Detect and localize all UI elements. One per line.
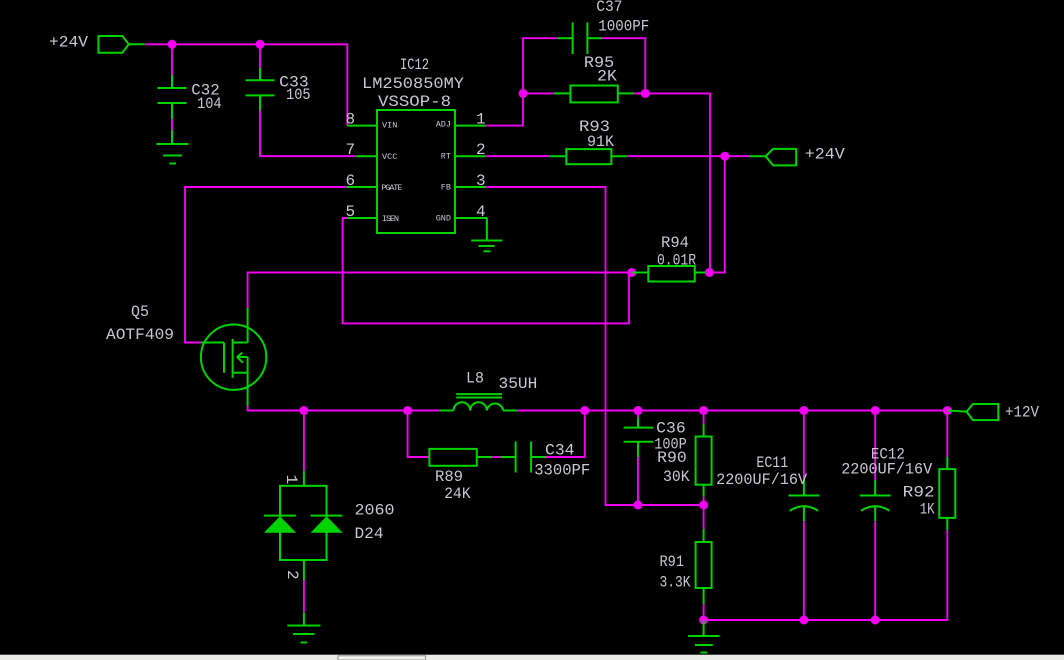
svg-text:+12V: +12V [1005,404,1039,422]
resistor R92 [903,457,956,530]
svg-text:2: 2 [283,570,301,580]
pin 8 VIN [346,111,398,131]
capacitor C34 [501,442,591,480]
junction FB node R90/R91 [699,501,708,510]
junction R94 left [627,268,636,277]
svg-text:C37: C37 [596,0,622,16]
junction top rail C33 [256,40,265,49]
junction rail R90 [699,406,708,415]
svg-text:1: 1 [476,111,486,129]
svg-text:IC12: IC12 [400,56,429,74]
wire ISEN pin5 to R94 left [343,218,629,323]
junction rail EC12 [871,406,880,415]
junction R94 right [705,268,714,277]
svg-text:2200UF/16V: 2200UF/16V [841,460,932,478]
svg-text:24K: 24K [444,485,471,503]
resistor R89 [429,449,492,503]
wire R91 top stub [703,505,705,529]
pin 7 VCC [346,141,398,162]
svg-text:91K: 91K [587,133,614,151]
wire EC12 bottom [874,521,876,620]
junction top rail C32 [168,40,177,49]
svg-text:6: 6 [346,172,356,190]
inductor L8 [440,370,538,411]
wire C36 bottom to FB node [637,457,639,505]
wire main +12V rail [248,406,948,411]
resistor R90 [657,424,712,497]
ground bottom right [688,620,719,653]
svg-text:7: 7 [346,141,356,159]
IC IC12 LM250850MY VSSOP-8 [362,56,464,233]
junction R95 right [641,89,650,98]
svg-text:Q5: Q5 [131,303,149,321]
svg-text:3: 3 [476,172,486,190]
junction ground rail EC12 [871,616,880,625]
wire R92 bottom to ground rail [704,530,948,620]
wire D24 to ground [303,580,305,613]
resistor R94 [632,234,710,282]
svg-text:D24: D24 [355,525,384,543]
wire +24V top rail [145,44,348,125]
svg-text:VSSOP-8: VSSOP-8 [378,93,451,111]
wire EC11 bottom [803,521,805,620]
resistor R95 [554,54,634,102]
junction rail D24 [299,406,308,415]
wire EC11 branch [803,411,805,482]
svg-text:2200UF/16V: 2200UF/16V [716,471,807,489]
junction rail R92 [943,406,952,415]
svg-text:2060: 2060 [355,502,395,520]
diode D24 [264,471,395,580]
wire R95 left stub [523,92,554,94]
svg-text:R91: R91 [660,553,685,571]
ground under D24 [287,613,320,643]
svg-text:3.3K: 3.3K [660,573,691,591]
svg-text:R92: R92 [903,484,935,502]
svg-text:EC11: EC11 [756,454,788,472]
svg-text:1: 1 [282,475,300,485]
capacitor EC12 [841,446,932,522]
junction +24V RT node [720,152,729,161]
svg-text:ISEN: ISEN [382,214,399,224]
power tag +12V [947,404,1039,422]
wire C33 branch [259,44,261,68]
power tag +24V left [49,33,145,52]
svg-text:30K: 30K [663,468,690,486]
transistor Q5 AOTF409 [106,303,266,406]
svg-text:GND: GND [436,214,451,224]
wire C36 branch top [637,411,639,418]
wire R90 bottom to FB node [703,497,705,505]
wire R95 node down to R94 right [645,93,710,273]
capacitor C32 [158,75,222,119]
wire D24 branch [303,411,305,471]
wire R89 to C34 [492,456,500,458]
wire C37 right leg [602,38,645,93]
pin 5 ISEN [346,203,400,224]
pin 3 FB [441,172,486,193]
resistor R91 [660,529,712,604]
svg-text:2: 2 [476,141,486,159]
wire RT pin2 to R93 [486,155,549,157]
wire R90 top stub [703,411,705,425]
resistor R93 [549,118,627,164]
svg-text:8: 8 [346,111,356,129]
pin 4 GND [436,203,487,224]
scrollbar bottom [0,655,1064,660]
wire C37 left leg [523,38,558,93]
svg-text:R94: R94 [661,234,689,252]
svg-text:104: 104 [197,95,222,113]
pin 1 ADJ [436,111,487,130]
wire Q5 top to R94 left [248,273,632,309]
svg-text:+24V: +24V [805,145,845,163]
svg-text:0.01R: 0.01R [657,252,696,270]
capacitor C33 [246,68,311,111]
wire FB pin3 down to feedback node [486,187,703,505]
svg-text:L8: L8 [466,370,484,388]
svg-text:35UH: 35UH [499,375,538,393]
pin 2 RT [441,141,486,162]
wire R93 right to +24V node [627,155,750,157]
svg-text:ADJ: ADJ [436,120,451,130]
svg-text:LM250850MY: LM250850MY [362,75,464,93]
capacitor C36 [624,417,687,457]
wire C33 to VCC pin7 [260,111,356,157]
capacitor EC11 [716,454,819,521]
ground at IC pin 4 [471,218,502,251]
junction rail EC11 [799,406,808,415]
pin 6 PGATE [346,172,403,193]
junction ground rail R91 [699,616,708,625]
svg-text:105: 105 [286,86,311,104]
power tag +24V right [749,145,845,165]
svg-text:1K: 1K [920,501,935,519]
svg-text:4: 4 [476,203,486,221]
junction FB node C36 [634,501,643,510]
svg-text:PGATE: PGATE [381,183,402,193]
wire R89 branch [408,411,430,458]
svg-text:R90: R90 [657,449,687,467]
svg-text:+24V: +24V [49,33,88,51]
wire ADJ to R95/C37 left node [486,93,523,125]
wire C32 to ground [171,119,173,130]
capacitor C37 [558,0,649,54]
svg-text:1000PF: 1000PF [598,17,649,35]
junction R95 left [519,89,528,98]
svg-text:AOTF409: AOTF409 [106,326,174,344]
svg-text:3300PF: 3300PF [534,462,590,480]
junction rail C36 [634,406,643,415]
svg-text:VCC: VCC [382,152,397,162]
svg-text:VIN: VIN [382,120,397,130]
wire EC12 branch [874,411,876,482]
junction ground rail EC11 [799,616,808,625]
wire PGATE pin6 to Q5 gate [185,187,346,343]
junction rail R89 [403,406,412,415]
svg-text:FB: FB [441,183,451,193]
ground under C32 [157,130,189,164]
wire R92 top stub [946,411,948,458]
wire R95 right to junction [634,92,645,94]
junction rail C34 [580,406,589,415]
wire C32 branch [171,44,173,75]
svg-text:2K: 2K [597,67,617,85]
svg-text:R89: R89 [435,468,463,486]
svg-text:RT: RT [441,152,451,162]
wire C34 right up to rail [546,411,585,458]
wire +24V node down to R94 right [709,156,724,272]
wire R91 bottom to ground rail [703,604,705,620]
